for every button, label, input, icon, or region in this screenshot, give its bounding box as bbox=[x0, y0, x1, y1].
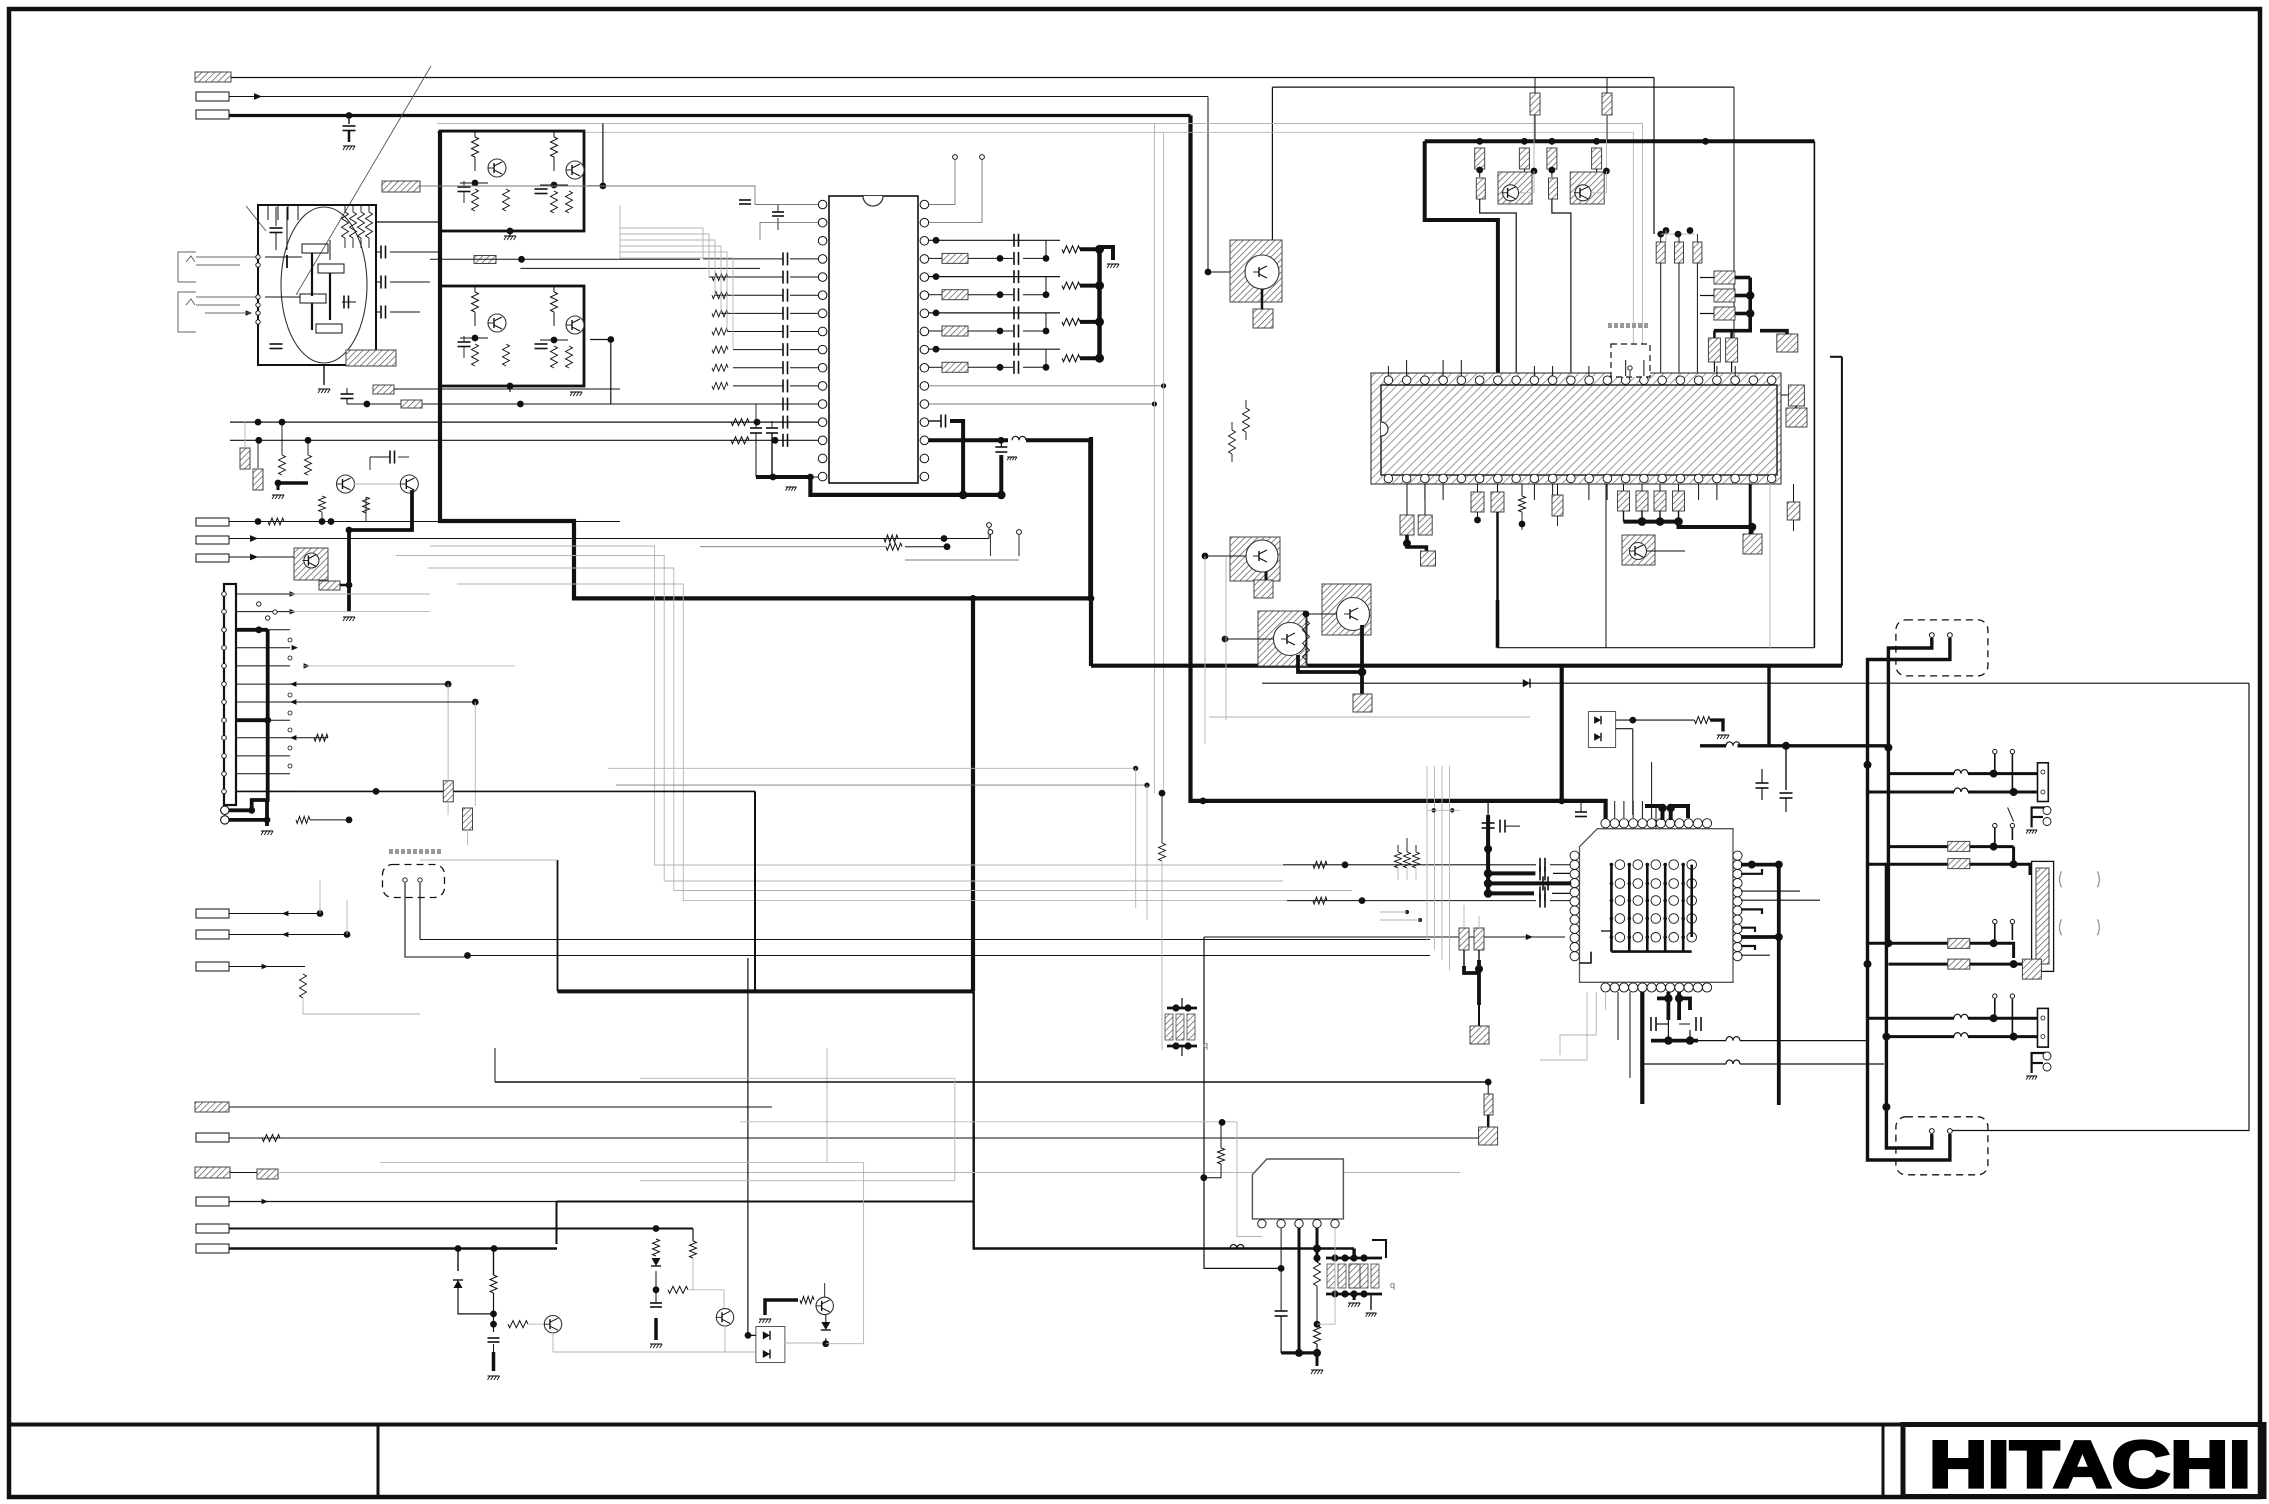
svg-text:q: q bbox=[1390, 1280, 1395, 1290]
svg-text:q: q bbox=[1203, 1040, 1208, 1050]
svg-text:HITACHI: HITACHI bbox=[1929, 1427, 2251, 1501]
